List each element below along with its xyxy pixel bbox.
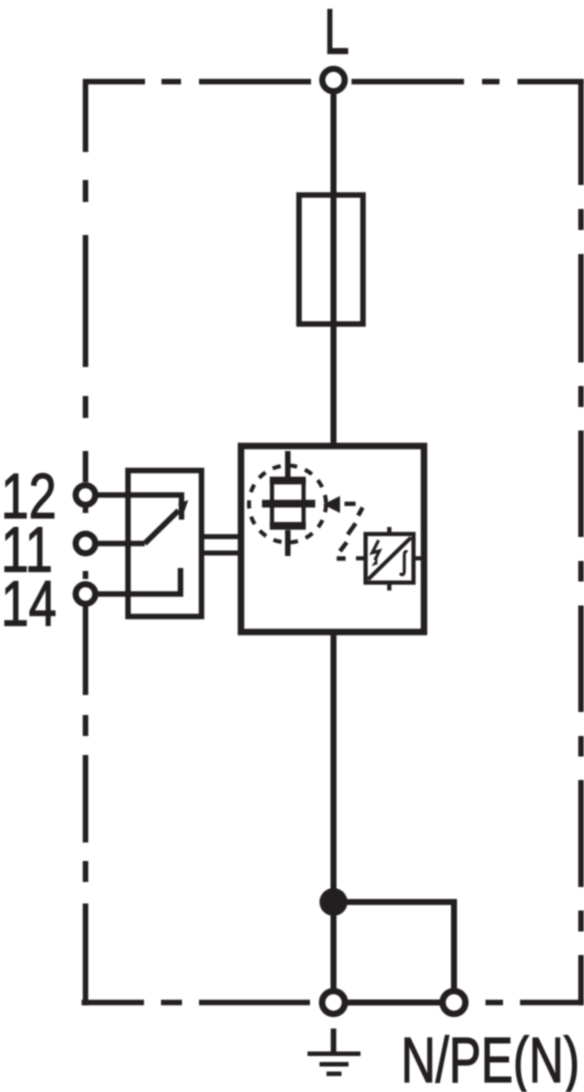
- trigger electronics box: right stub to SPD box wall: [413, 556, 425, 560]
- enclosure dash-dot frame, bottom border: [82, 1000, 584, 1006]
- enclosure dash-dot frame, right border: [578, 79, 584, 1005]
- trigger electronics box: top stub: [387, 527, 391, 534]
- spark gap: top electrode lead: [285, 451, 291, 477]
- label 11: [1, 515, 53, 586]
- trigger electronics box: left stub: [356, 556, 366, 560]
- spark gap: dashed circle: [249, 466, 326, 543]
- spark gap: bottom electrode lead: [285, 530, 291, 556]
- wire: SPD box down to earth terminal: [331, 630, 337, 1003]
- trigger electronics box: bottom stub: [387, 582, 391, 591]
- wire: terminal 14 to fixed contact: [86, 568, 181, 594]
- terminal 12 circle: [76, 485, 96, 505]
- svg-text:L: L: [324, 0, 349, 67]
- terminal N/PE(N) circle: [443, 991, 466, 1014]
- label N/PE(N): [401, 1024, 580, 1092]
- dashed trigger line from electronics to spark gap: [337, 504, 363, 559]
- fuse / disconnector F: [299, 195, 363, 324]
- spark gap: left side wall: [270, 480, 274, 526]
- spark gap: bottom electrode plate: [270, 522, 306, 530]
- wire: terminal 12 to fixed contact: [86, 495, 182, 520]
- wire: terminal 11 to moving contact: [86, 541, 145, 547]
- remote signalling changeover contact box: [128, 471, 202, 617]
- ground symbol: [331, 1029, 337, 1053]
- junction node at earth branch: [320, 888, 348, 916]
- spark gap: top electrode plate: [270, 477, 306, 485]
- wire: branch from junction to N/PE(N) terminal: [334, 902, 455, 1003]
- earth terminal circle: [322, 991, 345, 1014]
- trigger arrow pointing at spark gap: [323, 496, 340, 513]
- changeover contact arm arrowhead: [178, 500, 188, 511]
- label 14: [1, 569, 57, 640]
- enclosure dash-dot frame, left border: [83, 79, 89, 1005]
- spark gap: middle arc electrode bar: [262, 500, 315, 508]
- wire: bottom link between earth terminal and N/PE(N) terminal: [334, 1000, 455, 1006]
- SPD main box outline: [241, 446, 424, 632]
- trigger electronics box: lightning impulse icon: [372, 540, 379, 560]
- label 12: [1, 461, 57, 532]
- terminal 14 circle: [76, 584, 96, 604]
- double-line link from contact box to SPD box: [204, 534, 242, 539]
- enclosure dash-dot frame, top border: [83, 79, 584, 85]
- svg-text:N/PE(N): N/PE(N): [401, 1024, 580, 1092]
- svg-text:14: 14: [1, 569, 57, 640]
- terminal L circle: [322, 69, 344, 91]
- trigger electronics box U: [366, 534, 414, 583]
- terminal 11 circle: [76, 534, 96, 554]
- trigger electronics box: integral sign icon: [401, 552, 407, 575]
- wire: L terminal down through fuse to SPD box: [331, 80, 337, 448]
- label L: [324, 0, 349, 67]
- trigger electronics box: diagonal divider: [368, 538, 411, 580]
- spark gap: right side wall: [302, 480, 306, 526]
- changeover contact moving arm: [145, 511, 179, 544]
